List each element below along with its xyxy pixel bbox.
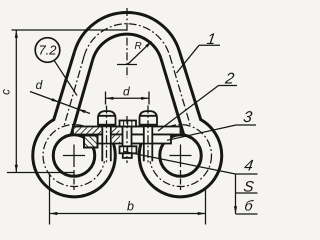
radius R arrow: [128, 42, 152, 65]
bolt 2 shank over plates: [144, 127, 153, 143]
balloon 7.2 circle: [35, 38, 60, 63]
bolt 1 dome head: [98, 111, 116, 125]
dimension b line: [50, 213, 206, 215]
bolt 2 dome head: [140, 111, 158, 125]
dimension d (rod diameter) line: [30, 92, 90, 114]
dimension c extension top: [12, 29, 128, 31]
center stud tail: [123, 153, 132, 158]
lower plate: [98, 135, 172, 144]
dimension b extension left: [49, 174, 51, 225]
svg-text:b: b: [127, 200, 134, 214]
callout 3 leader: [167, 125, 236, 140]
dimension c extension bottom: [7, 172, 74, 174]
right eye inner hole: [160, 135, 202, 177]
bolt 1 axis centerline: [106, 106, 108, 164]
right eye center cross: [170, 155, 192, 157]
right eye rod centerline circle: [150, 125, 212, 187]
svg-text:d: d: [123, 85, 130, 99]
bolt 2 shank: [144, 125, 153, 162]
callout 5 shelf: [236, 192, 258, 194]
left eye center cross: [63, 155, 85, 157]
dimension d (bolt spacing) extension ticks: [105, 92, 107, 105]
center stud axis: [126, 116, 128, 163]
rod end cross-section (hatched): [84, 136, 98, 148]
dimension c line: [15, 30, 17, 173]
rod centerline right slant: [170, 56, 191, 126]
bolt 2 axis centerline: [147, 106, 149, 164]
center stud bottom nut: [120, 146, 137, 153]
bolt 1 shank: [102, 125, 111, 162]
left eye rod centerline circle: [43, 125, 105, 187]
link rod outer contour: [75, 13, 222, 197]
balloon 7.2 leader: [54, 60, 77, 95]
left eye inner hole: [53, 135, 95, 177]
apex center cross: [117, 64, 137, 66]
apex vertical centerline: [126, 8, 128, 78]
link rod outer contour left: [33, 51, 116, 197]
svg-text:R: R: [135, 41, 142, 52]
link rod inner contour: [93, 34, 184, 135]
bolt 1 shank over plates: [102, 127, 111, 143]
dimension b extension right: [205, 187, 207, 225]
rod centerline left slant: [64, 56, 84, 126]
svg-text:d: d: [36, 78, 43, 92]
callout 6 shelf: [236, 213, 258, 215]
svg-text:7.2: 7.2: [38, 43, 57, 58]
callout 1 leader: [177, 45, 200, 73]
callout ladder line: [235, 174, 237, 214]
center stud body: [123, 127, 132, 148]
callout 4 leader: [124, 152, 236, 175]
callout 2 leader: [158, 86, 219, 132]
svg-text:c: c: [1, 89, 13, 95]
dimension d (bolt spacing) line: [106, 97, 150, 99]
center stud top nut: [120, 121, 137, 127]
top plate (bar): [73, 127, 181, 135]
rod centerline apex arc: [84, 24, 170, 56]
